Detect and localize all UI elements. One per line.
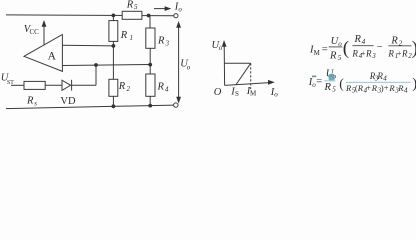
svg-text:R: R [324,82,332,93]
svg-text:R: R [118,81,126,92]
svg-text:+: + [366,82,371,92]
svg-text:4: 4 [404,86,408,94]
svg-text:5: 5 [338,54,342,62]
svg-text:M: M [314,49,321,57]
svg-text:3: 3 [165,39,170,47]
svg-text:o: o [274,90,278,98]
svg-text:): ) [412,76,416,92]
svg-text:ST: ST [7,80,14,86]
svg-text:+: + [384,82,389,92]
svg-text:R: R [351,49,358,59]
svg-text:VD: VD [60,96,76,107]
svg-text:R: R [390,36,398,47]
svg-text:s: s [34,99,37,107]
svg-text:=: = [316,76,322,87]
svg-text:2: 2 [127,85,131,93]
svg-text:R: R [157,81,165,92]
svg-text:o: o [178,6,182,14]
svg-text:M: M [250,90,257,98]
svg-text:R: R [365,49,372,59]
svg-text:o: o [219,44,223,52]
svg-text:): ) [412,38,416,59]
svg-text:o: o [187,63,191,71]
svg-text:4: 4 [383,74,387,82]
svg-text:=: = [322,44,328,55]
svg-text:R: R [120,30,128,41]
svg-text:4: 4 [362,38,366,46]
svg-text:−: − [377,42,383,53]
svg-text:S: S [235,90,239,98]
svg-text:3: 3 [371,52,376,60]
svg-text:CC: CC [30,28,40,36]
svg-text:R: R [329,51,337,62]
svg-text:R: R [157,35,165,46]
svg-text:A: A [48,50,57,62]
svg-text:5: 5 [332,86,336,94]
svg-text:5: 5 [134,3,138,11]
svg-text:R: R [387,49,394,59]
svg-text:R: R [401,49,408,59]
svg-text:(: ( [343,38,349,59]
svg-text:(: ( [339,76,344,91]
svg-text:R: R [354,34,362,45]
svg-text:R: R [26,96,34,107]
svg-text:O: O [214,87,222,98]
svg-text:R: R [126,0,134,11]
svg-text:1: 1 [130,34,134,42]
svg-text:4: 4 [165,85,169,93]
